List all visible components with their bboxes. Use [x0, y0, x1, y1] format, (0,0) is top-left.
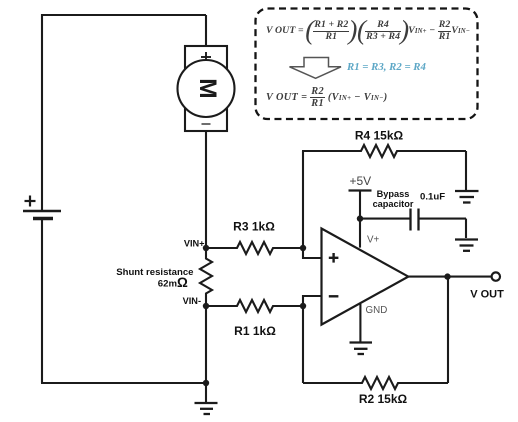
- svg-text:Ω: Ω: [177, 275, 188, 290]
- arrow down: [290, 58, 342, 79]
- equation 2: [266, 86, 388, 109]
- node VIN-: [183, 296, 210, 309]
- wire top: [42, 14, 206, 16]
- wire R4 branch up: [302, 151, 304, 248]
- svg-text:V OUT: V OUT: [470, 289, 504, 301]
- wire R2 branch down: [302, 306, 304, 383]
- node B junction: [300, 303, 306, 309]
- node A junction: [300, 245, 306, 251]
- svg-text:V+: V+: [367, 235, 380, 246]
- wire bottom: [41, 382, 206, 384]
- note R1=R3 R2=R4: [347, 61, 426, 73]
- wire VIN- down: [205, 306, 207, 383]
- svg-text:VIN+: VIN+: [184, 239, 205, 249]
- wire cap right down: [465, 219, 467, 238]
- wire R2 right up: [447, 277, 449, 383]
- shunt resistor 62m: [116, 248, 212, 306]
- resistor R2 15k: [303, 377, 448, 406]
- ground R4: [455, 191, 479, 203]
- bypass capacitor C1 0.1uF: [360, 189, 466, 231]
- ground opamp: [350, 343, 373, 355]
- motor M1: [178, 46, 235, 131]
- op-amp U1: [322, 229, 409, 325]
- wire to +input: [303, 248, 322, 258]
- battery BT1: [23, 196, 61, 219]
- svg-text:0.1uF: 0.1uF: [420, 192, 445, 203]
- svg-text:R1 1kΩ: R1 1kΩ: [234, 324, 276, 338]
- svg-text:Bypass: Bypass: [377, 189, 410, 199]
- formula box dashed border: [256, 9, 478, 120]
- node V+ junction: [357, 215, 363, 221]
- svg-text:+5V: +5V: [350, 174, 372, 188]
- wire output: [408, 276, 491, 278]
- terminal V OUT: [470, 272, 504, 300]
- svg-text:R2 15kΩ: R2 15kΩ: [359, 392, 408, 406]
- wire left upper: [41, 14, 43, 210]
- svg-text:R4 15kΩ: R4 15kΩ: [355, 129, 404, 143]
- resistor R1 1k: [206, 300, 303, 338]
- +5V supply: [349, 174, 372, 248]
- wire to -input: [303, 296, 322, 306]
- node bottom junction: [203, 380, 209, 386]
- wire motor top: [205, 15, 207, 46]
- node VIN+: [184, 239, 209, 252]
- svg-text:M: M: [194, 78, 221, 98]
- svg-text:VIN-: VIN-: [183, 296, 201, 306]
- ground main: [195, 383, 218, 414]
- wire opamp GND pin: [359, 304, 361, 342]
- wire R4 right down: [465, 151, 467, 190]
- svg-text:GND: GND: [366, 305, 388, 316]
- svg-text:62m: 62m: [158, 279, 177, 290]
- svg-text:R3 1kΩ: R3 1kΩ: [233, 220, 275, 234]
- wire left lower: [41, 220, 43, 383]
- resistor R3 1k: [206, 220, 303, 255]
- svg-text:capacitor: capacitor: [373, 199, 414, 209]
- wire motor bottom: [205, 131, 207, 248]
- ground cap: [455, 240, 478, 251]
- node output junction: [444, 273, 450, 279]
- equation 1: [266, 15, 470, 46]
- resistor R4 15k: [302, 129, 466, 158]
